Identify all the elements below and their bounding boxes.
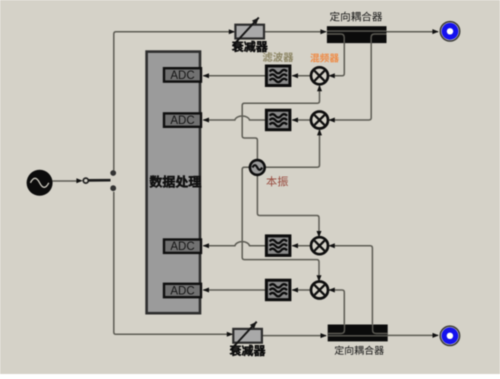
svg-text:定向耦合器: 定向耦合器 [334,342,384,357]
svg-text:混频器: 混频器 [310,50,339,64]
svg-text:定向耦合器: 定向耦合器 [330,10,383,25]
svg-text:数据处理: 数据处理 [149,172,201,191]
svg-text:ADC: ADC [170,115,194,127]
svg-text:ADC: ADC [170,241,194,253]
svg-text:滤波器: 滤波器 [262,49,294,64]
svg-text:ADC: ADC [170,70,194,82]
svg-text:本振: 本振 [266,174,288,190]
svg-text:衰减器: 衰减器 [229,342,265,359]
svg-text:ADC: ADC [170,286,194,298]
